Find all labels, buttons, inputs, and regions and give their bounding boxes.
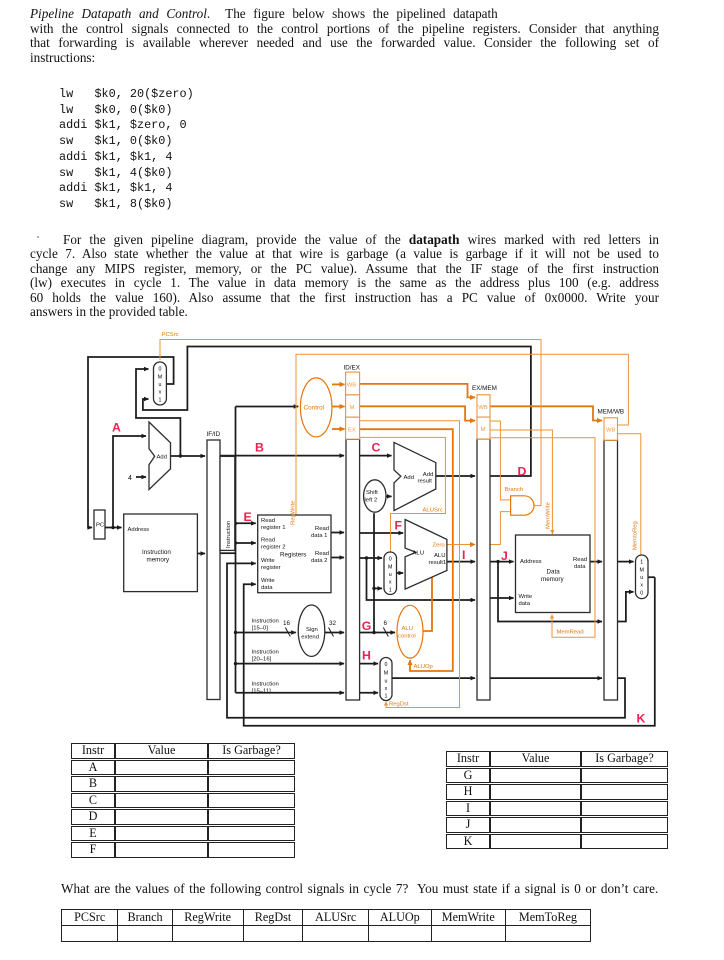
svg-text:control: control	[398, 634, 416, 640]
wire: Control to ID/EX EX	[332, 428, 345, 430]
ID/EX WB box	[346, 372, 360, 395]
wire: MemToReg signal to MemToReg mux	[618, 434, 641, 555]
svg-text:Zero: Zero	[433, 543, 446, 549]
svg-text:0: 0	[159, 367, 162, 373]
wire: K mux output stub	[648, 576, 655, 578]
svg-text:Registers: Registers	[280, 552, 306, 559]
svg-text:ALUOp: ALUOp	[414, 664, 434, 670]
wire: ALU control output to ALU	[423, 578, 432, 632]
wire: Read data 1 into ID/EX	[331, 532, 344, 534]
IF/ID register	[207, 440, 220, 700]
MemToReg mux	[636, 555, 649, 599]
wire: instruction [15-11] to RegDst mux input 1	[360, 692, 378, 694]
wire: Branch signal EX/MEM to AND gate	[490, 421, 510, 500]
wire: Zero flag EX/MEM to AND gate	[490, 512, 510, 545]
wire: PC value up to Add (node A)	[113, 436, 146, 528]
wire: immediate vertical to shift-left-2 and ALUSrc mux input 1	[373, 513, 375, 632]
wire: write-back data return path (node K)	[244, 577, 655, 726]
MemToReg mux 1/M/u/x/0	[639, 560, 643, 597]
svg-text:C: C	[372, 441, 381, 455]
svg-text:B: B	[255, 441, 264, 455]
svg-text:6: 6	[384, 620, 388, 627]
svg-text:Control: Control	[304, 405, 325, 412]
svg-text:EX/MEM: EX/MEM	[472, 385, 497, 392]
EX/MEM register bar	[477, 439, 490, 700]
wire: instruction to Read register 1 (node E)	[236, 522, 256, 524]
wire: instruction to Read register 2	[236, 542, 256, 544]
control signal table	[61, 909, 591, 942]
svg-text:[20–16]: [20–16]	[252, 657, 272, 663]
svg-text:Address: Address	[520, 559, 542, 565]
wire: ALU result into EX/MEM (node I)	[447, 561, 475, 563]
wire: PC+4 from ID/EX to branch adder (node C)	[360, 455, 392, 457]
wire: ALUSrc mux output to ALU	[397, 572, 404, 574]
16 bus slash	[285, 628, 290, 637]
svg-text:Read: Read	[261, 518, 275, 524]
wire: ALU result from MEM/WB to MemToReg mux input 0	[618, 592, 634, 622]
svg-text:Read: Read	[261, 538, 275, 544]
svg-text:Instruction: Instruction	[252, 619, 279, 625]
wire: RegDst mux output to EX/MEM	[392, 677, 475, 679]
svg-text:ALUSrc: ALUSrc	[423, 508, 443, 514]
Add unit	[149, 422, 171, 490]
ID/EX register bar	[346, 439, 360, 700]
wire: ALU result bypass to MEM/WB	[498, 562, 602, 622]
shift left 2	[364, 480, 386, 512]
svg-text:Add: Add	[157, 455, 167, 461]
svg-text:M: M	[388, 565, 392, 571]
ALU control	[397, 605, 423, 658]
wire: WB signals EX/MEM to MEM/WB	[490, 406, 602, 420]
wire: PCSrc signal from branch AND gate to pc-mux	[160, 340, 541, 506]
ALU	[405, 520, 447, 590]
32 bus slash	[329, 628, 334, 637]
svg-text:E: E	[244, 510, 252, 524]
code block	[59, 87, 194, 213]
wire: RegDst signal to RegDst mux	[360, 421, 460, 708]
svg-text:0: 0	[385, 662, 388, 668]
wire: store data to data memory Write data	[490, 597, 514, 599]
sign extend	[298, 605, 325, 656]
wire: sign-extended immediate to ALU control (node G)	[360, 632, 395, 634]
svg-text:Read: Read	[573, 557, 587, 563]
svg-text:x: x	[389, 580, 392, 586]
wire: instruction bus vertical	[235, 407, 237, 693]
svg-text:MEM/WB: MEM/WB	[598, 409, 625, 416]
wire: constant 4 into Add	[136, 476, 146, 478]
instruction field box	[220, 456, 235, 550]
wire: Add output (PC+4) into IF/ID	[171, 455, 206, 457]
wire: immediate to ALUSrc mux input 1	[374, 587, 382, 589]
wire: instruction memory out to IF/ID	[197, 553, 205, 555]
svg-text:Address: Address	[128, 527, 150, 533]
wire: instruction [15-0] to sign extend	[236, 632, 296, 634]
branch Add result unit	[394, 442, 436, 510]
paragraph 2	[30, 233, 659, 248]
svg-text:EX: EX	[348, 428, 356, 434]
wire: branch target from EX/MEM to pc-mux input 1 (node D)	[143, 347, 531, 477]
svg-text:PCSrc: PCSrc	[162, 332, 179, 338]
svg-text:32: 32	[329, 620, 337, 627]
answer table G-K	[446, 750, 668, 850]
svg-text:M: M	[481, 427, 486, 433]
wire: WB signals ID/EX to EX/MEM	[360, 384, 475, 398]
paragraph 1	[30, 7, 659, 22]
wire: IF/ID instruction output stub	[220, 552, 236, 554]
PC	[94, 510, 105, 539]
svg-text:Branch: Branch	[505, 487, 524, 493]
svg-text:F: F	[395, 519, 403, 533]
svg-text:M: M	[639, 568, 643, 574]
svg-text:IF/ID: IF/ID	[207, 431, 221, 438]
wire: M signals ID/EX to EX/MEM	[360, 406, 475, 420]
wire: PC+4 from IF/ID to ID/EX (node B)	[220, 455, 344, 457]
svg-text:register: register	[261, 565, 281, 571]
svg-text:register 1: register 1	[261, 525, 286, 531]
svg-text:ALU: ALU	[413, 551, 424, 557]
svg-text:Add: Add	[404, 475, 414, 481]
wire: ALUSrc signal to ALUSrc mux	[360, 437, 446, 551]
svg-text:1: 1	[385, 694, 388, 700]
wire: instruction [20-16] into ID/EX	[236, 663, 345, 665]
svg-text:data: data	[519, 601, 531, 607]
svg-text:MemtoReg: MemtoReg	[633, 521, 639, 550]
svg-text:WB: WB	[347, 383, 357, 389]
svg-text:Instruction: Instruction	[252, 650, 279, 656]
svg-text:ALU: ALU	[402, 626, 413, 632]
wire: instruction [20-16] to RegDst mux input 0 (node H)	[360, 663, 378, 665]
wire: memory data to MemToReg mux input 1	[618, 561, 634, 563]
RegDst mux 0/M/u/x/1	[384, 662, 388, 700]
svg-text:extend: extend	[301, 634, 319, 640]
svg-text:Read: Read	[315, 526, 329, 532]
wire: PC+4 up to pc-mux input 0	[136, 369, 180, 456]
EX/MEM M box	[477, 417, 490, 439]
svg-text:MemRead: MemRead	[557, 630, 584, 636]
svg-text:result: result	[418, 479, 433, 485]
svg-text:u: u	[159, 382, 162, 388]
junction dots	[111, 454, 499, 665]
wire: ALU result to data memory Address (node J)	[490, 561, 514, 563]
svg-text:1: 1	[389, 588, 392, 594]
svg-text:I: I	[462, 548, 465, 562]
svg-text:x: x	[385, 686, 388, 692]
wire: data memory Read data into MEM/WB	[590, 561, 602, 563]
wire: mux output to PC	[88, 357, 174, 528]
pc mux 0/M/u/x/1	[158, 367, 162, 404]
wire: RegWrite signal MEM/WB to Registers	[296, 354, 628, 514]
svg-text:PC: PC	[96, 523, 105, 529]
wire: MemWrite signal to data memory	[490, 430, 552, 534]
EX/MEM WB box	[477, 395, 490, 417]
svg-text:MemWrite: MemWrite	[546, 502, 552, 529]
svg-text:WB: WB	[606, 428, 616, 434]
wire: PC to instruction memory Address	[105, 527, 122, 529]
svg-text:Write: Write	[261, 578, 275, 584]
RegDst mux	[380, 658, 392, 701]
wire: Control to ID/EX WB	[332, 383, 345, 385]
svg-text:u: u	[389, 572, 392, 578]
wire: Control to ID/EX M	[332, 406, 345, 408]
data memory	[516, 535, 591, 613]
svg-text:Shift: Shift	[366, 490, 378, 496]
svg-text:data 2: data 2	[311, 558, 327, 564]
Control unit	[300, 378, 332, 437]
svg-text:1: 1	[159, 398, 162, 404]
svg-text:ID/EX: ID/EX	[344, 365, 361, 372]
MEM/WB WB box	[604, 418, 618, 440]
svg-text:WB: WB	[478, 405, 488, 411]
wire: shift-left-2 output to Add result	[386, 495, 392, 497]
instruction memory	[124, 514, 198, 592]
wire: ALUOp signal to ALU control	[360, 429, 453, 671]
svg-text:1: 1	[640, 560, 643, 566]
tiny stray bullet	[37, 236, 39, 238]
svg-text:K: K	[637, 712, 646, 726]
wire: Read data 2 into ID/EX	[331, 557, 344, 559]
ALUSrc mux 0/M/u/x/1	[388, 557, 392, 594]
ALUSrc mux	[384, 552, 397, 595]
svg-text:memory: memory	[541, 576, 564, 583]
svg-text:data: data	[574, 564, 586, 570]
wire: instruction [15-11] into ID/EX	[236, 692, 345, 694]
svg-text:ALU: ALU	[434, 553, 445, 559]
svg-text:data: data	[261, 585, 273, 591]
6 bus slash	[383, 628, 388, 637]
wire: Add result into EX/MEM	[436, 475, 475, 477]
svg-text:M: M	[350, 405, 355, 411]
bottom question	[61, 881, 658, 897]
svg-text:Instruction: Instruction	[142, 549, 171, 556]
wire: Read data 1 to ALU (node F)	[360, 532, 404, 534]
svg-text:Instruction: Instruction	[226, 521, 232, 548]
svg-text:memory: memory	[147, 557, 170, 564]
svg-text:data 1: data 1	[311, 533, 327, 539]
svg-text:[15–0]: [15–0]	[252, 626, 269, 632]
svg-text:G: G	[362, 619, 372, 633]
MEM/WB register bar	[604, 440, 618, 700]
svg-text:Sign: Sign	[306, 627, 318, 633]
svg-text:[15–11]: [15–11]	[252, 689, 272, 695]
branch AND gate	[511, 496, 534, 515]
svg-text:D: D	[518, 465, 527, 479]
svg-text:16: 16	[283, 620, 291, 627]
wire: Read data 2 store path to EX/MEM	[367, 558, 476, 600]
answer table A-F	[71, 742, 295, 859]
ID/EX EX box	[346, 417, 360, 439]
svg-text:0: 0	[640, 591, 643, 597]
wire: sign extend output into ID/EX	[325, 632, 344, 634]
wire: write-register number return path	[227, 563, 625, 717]
wire: Zero flag ALU into EX/MEM	[447, 544, 475, 546]
svg-text:M: M	[158, 375, 162, 381]
svg-text:H: H	[362, 649, 371, 663]
svg-text:Data: Data	[547, 569, 561, 576]
svg-text:Write: Write	[261, 558, 275, 564]
svg-text:RegWrite: RegWrite	[291, 500, 297, 525]
svg-text:Add: Add	[423, 472, 433, 478]
wire: MemRead signal to data memory	[490, 438, 595, 638]
svg-text:M: M	[384, 671, 388, 677]
svg-text:Instruction: Instruction	[252, 682, 279, 688]
svg-text:x: x	[159, 390, 162, 396]
Registers	[258, 515, 331, 593]
svg-text:result1: result1	[429, 560, 447, 566]
svg-text:RegDst: RegDst	[389, 702, 409, 708]
ID/EX M box	[346, 395, 360, 417]
svg-text:u: u	[385, 679, 388, 685]
wire: destination register EX/MEM to MEM/WB	[490, 677, 602, 679]
wire: Read data 2 to ALUSrc mux input 0	[360, 557, 382, 559]
svg-text:0: 0	[389, 557, 392, 563]
svg-text:Write: Write	[519, 594, 533, 600]
wire: instruction to Control	[236, 406, 299, 408]
pc source mux	[154, 362, 167, 405]
svg-text:left 2: left 2	[365, 498, 378, 504]
svg-text:4: 4	[128, 475, 132, 482]
svg-text:Read: Read	[315, 551, 329, 557]
svg-text:A: A	[112, 421, 121, 435]
svg-text:J: J	[501, 549, 508, 563]
svg-text:x: x	[640, 583, 643, 589]
svg-text:register 2: register 2	[261, 545, 286, 551]
svg-text:u: u	[640, 575, 643, 581]
